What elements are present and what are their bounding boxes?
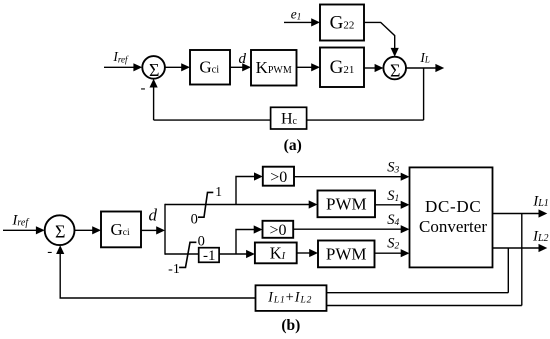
block gt0 second (b) (263, 221, 294, 239)
wire branch up to gt0 box 1 (b) (236, 172, 263, 204)
wire feedback lower horizontal (b) (327, 305, 522, 307)
block PWM1 (b) (318, 191, 376, 218)
wire IL2 feedback vertical (b) (507, 248, 509, 293)
svg-text:e1: e1 (291, 6, 302, 21)
svg-text:-1: -1 (168, 262, 180, 277)
block PWM2 (b) (318, 241, 375, 268)
svg-text:(b): (b) (281, 317, 300, 334)
block KI (b) (255, 243, 297, 264)
svg-text:>0: >0 (269, 222, 286, 239)
block G22 (a) (320, 5, 364, 41)
svg-text:(a): (a) (284, 137, 302, 154)
svg-text:Σ: Σ (390, 60, 400, 80)
svg-text:Σ: Σ (149, 60, 159, 80)
svg-text:1: 1 (215, 184, 222, 199)
svg-text:-: - (47, 244, 52, 260)
saturation symbol -1..0 (b) (179, 242, 196, 267)
wire feedback bottom (a) (154, 119, 424, 121)
wire S4 to converter (b) (293, 225, 409, 233)
wire feedback upper horizontal (b) (327, 292, 509, 294)
summing junction S1 (a) (142, 56, 165, 80)
svg-text:IL2: IL2 (532, 228, 549, 244)
block gt0 first (b) (263, 167, 294, 186)
svg-text:S1: S1 (387, 188, 399, 204)
saturation symbol 0..1 (b) (198, 192, 213, 217)
svg-text:S2: S2 (387, 236, 399, 252)
wire G22 to sum S2 (a) (364, 22, 399, 56)
wire G21 to sum S2 (a) (364, 64, 383, 72)
wire KI to PWM2 (b) (297, 249, 318, 257)
svg-text:d: d (149, 205, 158, 224)
svg-text:Iref: Iref (112, 49, 129, 65)
svg-text:>0: >0 (270, 169, 287, 186)
wire output IL1 (b) (493, 209, 548, 217)
wire feedback up to sum (a) (150, 79, 158, 120)
block IL1+IL2 (b) (256, 285, 327, 311)
svg-text:0: 0 (191, 211, 198, 227)
wire feedback to sum (b) (56, 245, 255, 298)
svg-text:PWM: PWM (326, 195, 367, 214)
svg-text:Σ: Σ (55, 221, 65, 241)
wire e1 to G22 (a) (284, 18, 320, 26)
wire KPWM to G21 (a) (297, 63, 321, 71)
svg-text:S4: S4 (387, 212, 399, 228)
svg-text:IL: IL (419, 50, 430, 65)
wire S1 to converter (b) (375, 201, 410, 209)
svg-text:PWM: PWM (326, 245, 367, 264)
svg-text:Converter: Converter (419, 217, 487, 236)
block Gci (a) (190, 50, 230, 85)
block Gci (b) (101, 212, 141, 248)
svg-text:DC-DC: DC-DC (425, 197, 481, 216)
wire Gci to KPWM (a) (230, 63, 251, 71)
svg-text:d: d (239, 51, 247, 67)
wire top branch to PWM1 (b) (165, 200, 318, 208)
svg-text:S3: S3 (387, 159, 399, 175)
wire feedback vertical drop (a) (423, 68, 425, 120)
wire lower branch (b) (165, 250, 255, 258)
wire output IL (a) (406, 64, 444, 72)
block KPWM (a) (251, 50, 297, 86)
svg-text:Iref: Iref (11, 212, 29, 228)
wire output IL2 (b) (493, 244, 548, 252)
svg-text:IL1: IL1 (532, 194, 549, 210)
wire sum to Gci (a) (165, 63, 190, 71)
block DC-DC Converter (b) (410, 167, 493, 267)
wire S2 to converter (b) (375, 249, 410, 257)
wire Gci to branch node (b) (141, 226, 165, 234)
block G21 (a) (320, 48, 364, 88)
wire Iref input (a) (104, 63, 142, 71)
wire S3 to converter (b) (294, 173, 410, 181)
svg-text:-: - (141, 80, 146, 96)
summing junction S2 (a) (383, 57, 406, 81)
wire branch vertical (b) (164, 204, 166, 255)
svg-text:-1: -1 (203, 248, 216, 264)
block gain -1 (b) (199, 248, 219, 265)
wire sum to Gci (b) (75, 226, 102, 234)
summing junction (b) (45, 215, 75, 245)
wire IL1 feedback vertical (b) (521, 214, 523, 306)
wire Iref input (b) (3, 226, 45, 234)
wire branch up to gt0 box 2 (b) (236, 225, 263, 254)
block Hc (a) (271, 107, 307, 129)
